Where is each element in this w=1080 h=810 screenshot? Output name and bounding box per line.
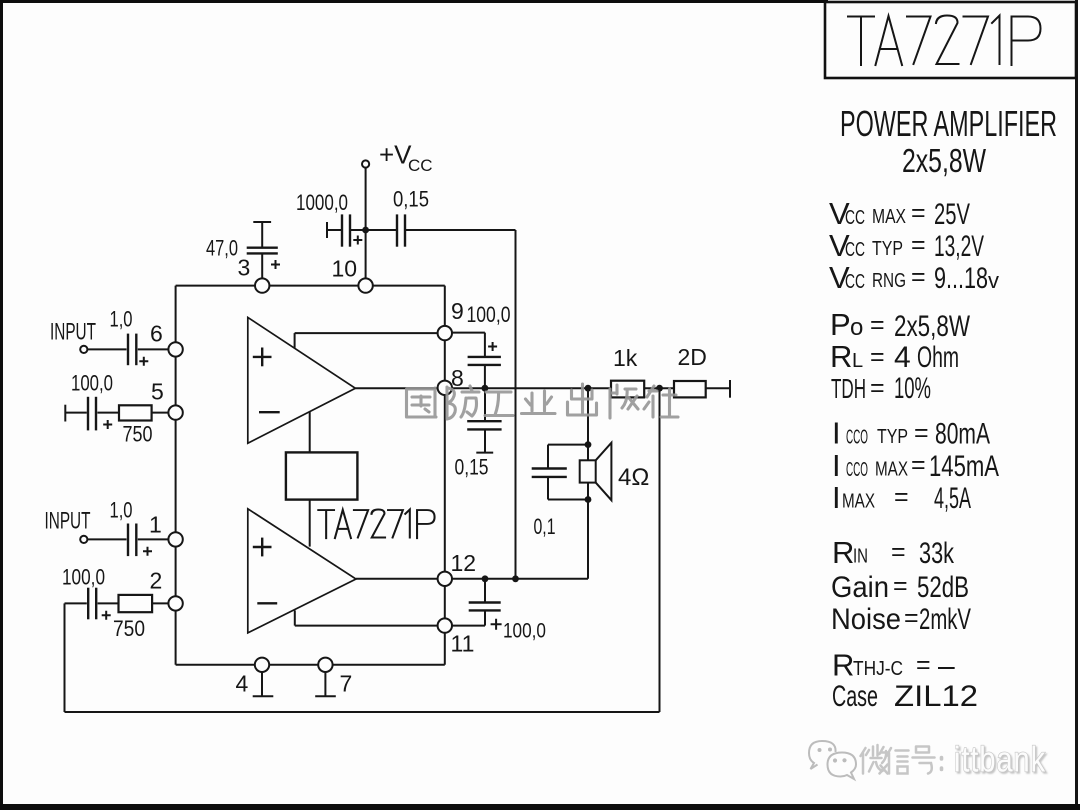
svg-text:R: R <box>832 535 854 570</box>
svg-text:4Ω: 4Ω <box>618 464 649 491</box>
svg-text:2D: 2D <box>678 344 707 370</box>
svg-text:0,15: 0,15 <box>455 455 489 480</box>
svg-text:=: = <box>870 374 885 402</box>
svg-text:=: = <box>916 651 931 679</box>
svg-text:INPUT: INPUT <box>45 508 91 535</box>
svg-text:=: = <box>893 572 908 600</box>
svg-text:5: 5 <box>151 379 164 405</box>
svg-text:10%: 10% <box>894 372 931 405</box>
svg-text:CCO: CCO <box>846 459 868 481</box>
svg-text:33k: 33k <box>919 537 955 570</box>
svg-text:R: R <box>830 339 852 374</box>
svg-text:–: – <box>938 650 955 683</box>
svg-text:MAX: MAX <box>875 459 908 481</box>
svg-text:POWER AMPLIFIER: POWER AMPLIFIER <box>840 103 1057 144</box>
svg-text:=: = <box>911 263 926 291</box>
svg-text:Case: Case <box>832 680 878 713</box>
svg-text:=: = <box>911 199 926 227</box>
svg-text:13,2V: 13,2V <box>934 230 984 263</box>
svg-text:2x5,8W: 2x5,8W <box>902 142 987 179</box>
svg-text:25V: 25V <box>934 198 970 231</box>
svg-text:2: 2 <box>150 568 163 594</box>
svg-text:Ohm: Ohm <box>917 341 959 374</box>
svg-text:o: o <box>850 314 863 341</box>
svg-text:I: I <box>832 448 841 483</box>
svg-text:CC: CC <box>408 156 433 175</box>
svg-text:2mkV: 2mkV <box>919 603 971 636</box>
svg-text:=: = <box>870 343 885 371</box>
svg-text:Gain: Gain <box>831 571 889 604</box>
svg-text:12: 12 <box>451 550 477 576</box>
svg-text:v: v <box>988 268 999 293</box>
svg-text:I: I <box>832 480 841 515</box>
svg-text:100,0: 100,0 <box>503 620 546 643</box>
svg-text:52dB: 52dB <box>917 571 969 604</box>
svg-text:2x5,8W: 2x5,8W <box>894 310 971 343</box>
svg-text:=: = <box>914 419 929 447</box>
svg-text:47,0: 47,0 <box>206 236 238 261</box>
svg-text:750: 750 <box>113 616 145 641</box>
svg-text:1: 1 <box>149 512 162 538</box>
svg-text:CCO: CCO <box>846 427 868 449</box>
svg-text:6: 6 <box>150 321 163 347</box>
svg-text:9...18: 9...18 <box>934 262 988 295</box>
svg-text:R: R <box>832 648 854 683</box>
svg-text:100,0: 100,0 <box>467 302 511 327</box>
svg-text:THJ-C: THJ-C <box>853 658 903 680</box>
svg-text:1,0: 1,0 <box>110 307 133 332</box>
svg-text:10: 10 <box>332 256 358 282</box>
svg-text:Noise: Noise <box>831 603 901 636</box>
svg-text:CC: CC <box>845 239 865 261</box>
svg-text:80mA: 80mA <box>935 418 990 451</box>
svg-text:CC: CC <box>845 207 865 229</box>
svg-text:CC: CC <box>845 271 865 293</box>
svg-text:8: 8 <box>451 365 464 391</box>
svg-text:1k: 1k <box>613 345 638 371</box>
svg-text:4,5A: 4,5A <box>934 482 971 515</box>
svg-text:=: = <box>870 311 885 339</box>
svg-text:=: = <box>894 483 909 511</box>
svg-text:MAX: MAX <box>842 491 875 513</box>
svg-text:TDH: TDH <box>831 373 866 404</box>
svg-text:I: I <box>832 416 841 451</box>
svg-text:9: 9 <box>451 298 464 324</box>
svg-text:IN: IN <box>853 546 868 568</box>
svg-text:1,0: 1,0 <box>110 497 133 522</box>
svg-text:MAX: MAX <box>872 206 906 228</box>
svg-text:4: 4 <box>894 341 911 374</box>
svg-text:7: 7 <box>340 671 353 697</box>
svg-text:100,0: 100,0 <box>71 371 113 396</box>
svg-text:0,1: 0,1 <box>534 514 556 539</box>
svg-text:=: = <box>911 451 926 479</box>
svg-text:750: 750 <box>123 422 153 447</box>
svg-text:P: P <box>830 307 851 342</box>
svg-text:ZIL12: ZIL12 <box>894 680 978 713</box>
svg-text:TYP: TYP <box>877 426 908 448</box>
svg-text:0,15: 0,15 <box>393 187 429 212</box>
svg-text:TYP: TYP <box>872 238 903 260</box>
svg-text:ittbank: ittbank <box>954 739 1046 780</box>
svg-text:11: 11 <box>451 631 475 657</box>
svg-text:=: = <box>891 538 906 566</box>
svg-text:3: 3 <box>238 255 251 281</box>
svg-text:145mA: 145mA <box>929 450 999 483</box>
svg-text:L: L <box>852 350 863 372</box>
svg-text:INPUT: INPUT <box>50 319 96 346</box>
svg-text:1000,0: 1000,0 <box>296 190 348 215</box>
svg-text:RNG: RNG <box>872 270 906 292</box>
svg-text:=: = <box>904 604 919 632</box>
svg-text:100,0: 100,0 <box>62 565 105 590</box>
svg-text:=: = <box>911 231 926 259</box>
svg-text:4: 4 <box>236 671 249 697</box>
